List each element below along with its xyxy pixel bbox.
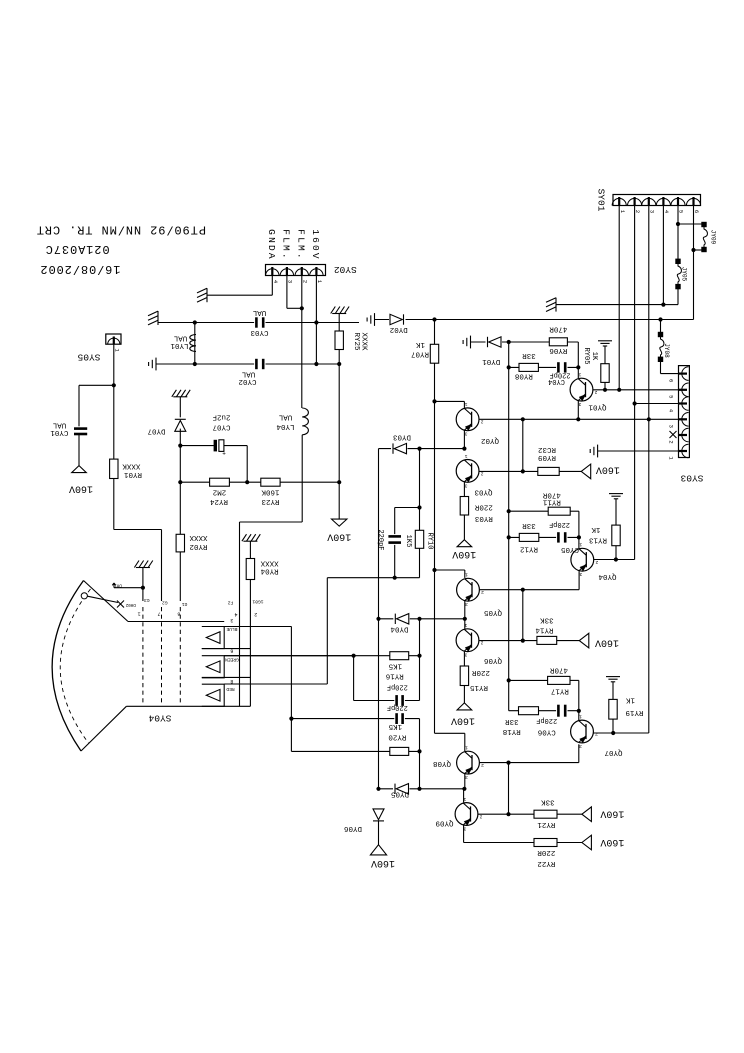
svg-text:JY08: JY08	[663, 343, 670, 358]
svg-text:RY02: RY02	[189, 542, 207, 550]
svg-text:QY04: QY04	[598, 572, 617, 580]
svg-text:RY13: RY13	[589, 535, 608, 543]
svg-text:LY04: LY04	[276, 422, 295, 430]
svg-text:RY17: RY17	[551, 687, 569, 695]
svg-text:RY15: RY15	[470, 683, 489, 691]
svg-text:RY24: RY24	[210, 497, 229, 505]
svg-text:1G01: 1G01	[252, 598, 263, 604]
svg-text:XXXK: XXXK	[122, 461, 141, 469]
svg-text:FLM.: FLM.	[281, 229, 292, 261]
svg-text:3: 3	[464, 431, 467, 437]
svg-text:SY05: SY05	[77, 351, 100, 362]
svg-text:3: 3	[579, 571, 582, 577]
svg-text:6: 6	[668, 379, 675, 382]
svg-text:160V: 160V	[451, 714, 475, 725]
svg-text:QY09: QY09	[435, 818, 453, 826]
svg-text:6: 6	[693, 210, 700, 213]
svg-text:SY04: SY04	[148, 713, 171, 724]
svg-text:2u2F: 2u2F	[212, 413, 230, 421]
svg-text:2: 2	[254, 611, 257, 617]
svg-text:2: 2	[479, 813, 482, 819]
svg-text:220R: 220R	[472, 668, 491, 676]
svg-text:33K: 33K	[540, 615, 554, 623]
svg-text:220pF: 220pF	[536, 716, 557, 724]
svg-text:BLUE: BLUE	[226, 626, 237, 632]
svg-text:16/08/2002: 16/08/2002	[39, 262, 120, 276]
svg-text:220R: 220R	[474, 502, 493, 510]
svg-text:1: 1	[578, 372, 581, 378]
svg-text:3: 3	[465, 774, 468, 780]
svg-text:G3: G3	[144, 597, 150, 603]
svg-text:3: 3	[668, 425, 675, 428]
svg-text:SY02: SY02	[334, 264, 357, 275]
svg-text:1K5: 1K5	[388, 722, 402, 730]
svg-text:5: 5	[678, 210, 685, 213]
svg-text:2: 2	[595, 559, 598, 565]
svg-text:DY07: DY07	[147, 427, 165, 435]
svg-text:1: 1	[138, 610, 141, 616]
svg-text:1K5: 1K5	[404, 535, 412, 548]
svg-text:1: 1	[465, 572, 468, 578]
svg-text:1: 1	[579, 713, 582, 719]
svg-text:DH02: DH02	[125, 602, 136, 606]
svg-text:CY01: CY01	[50, 428, 69, 436]
svg-text:2: 2	[481, 762, 484, 768]
svg-text:220pF: 220pF	[376, 529, 384, 550]
svg-text:CY06: CY06	[537, 728, 556, 736]
svg-text:1: 1	[464, 401, 467, 407]
svg-text:3: 3	[230, 617, 233, 623]
svg-text:RY03: RY03	[474, 514, 493, 522]
svg-text:3: 3	[465, 601, 468, 607]
svg-text:LY01: LY01	[170, 341, 189, 349]
svg-text:RY12: RY12	[520, 544, 538, 552]
svg-text:1K: 1K	[591, 525, 601, 533]
svg-text:UAL: UAL	[278, 412, 292, 420]
svg-text:QY01: QY01	[588, 402, 607, 410]
svg-text:CY05: CY05	[561, 545, 580, 553]
svg-text:2: 2	[634, 210, 641, 213]
svg-text:2: 2	[594, 389, 597, 395]
svg-text:GREEN: GREEN	[225, 657, 239, 663]
svg-text:XXXX: XXXX	[189, 533, 208, 541]
svg-text:160V: 160V	[452, 548, 476, 559]
svg-text:160V: 160V	[327, 531, 351, 542]
svg-text:2: 2	[668, 440, 675, 443]
svg-text:RY20: RY20	[388, 732, 407, 740]
svg-text:QY05: QY05	[484, 608, 503, 616]
svg-text:DH1: DH1	[114, 583, 122, 587]
svg-text:3: 3	[579, 743, 582, 749]
svg-text:3: 3	[463, 825, 466, 831]
svg-text:RY06: RY06	[549, 346, 568, 354]
svg-text:RY19: RY19	[625, 708, 643, 716]
svg-text:33R: 33R	[505, 717, 519, 725]
svg-text:3: 3	[648, 210, 655, 213]
svg-text:G1: G1	[182, 601, 188, 607]
svg-text:160V: 160V	[596, 464, 620, 475]
svg-text:UAL: UAL	[241, 370, 255, 378]
svg-text:160V: 160V	[371, 857, 395, 868]
svg-text:QY02: QY02	[481, 436, 499, 444]
svg-text:021A037C: 021A037C	[45, 242, 110, 256]
svg-text:PT90/92 NN/MN TR. CRT: PT90/92 NN/MN TR. CRT	[36, 223, 206, 237]
svg-text:33R: 33R	[522, 521, 536, 529]
svg-text:2: 2	[301, 280, 308, 283]
svg-text:220pF: 220pF	[387, 703, 408, 711]
svg-text:DY03: DY03	[393, 433, 412, 441]
svg-text:RY18: RY18	[503, 727, 521, 735]
svg-text:2: 2	[595, 731, 598, 737]
svg-text:220R: 220R	[537, 848, 556, 856]
svg-text:CY02: CY02	[238, 377, 256, 385]
svg-text:RY25: RY25	[352, 332, 360, 351]
svg-text:470R: 470R	[550, 665, 569, 673]
svg-text:CY03: CY03	[250, 328, 269, 336]
svg-text:1: 1	[464, 622, 467, 628]
svg-text:160V: 160V	[595, 637, 619, 648]
svg-text:1K: 1K	[590, 352, 598, 361]
svg-text:F2: F2	[228, 599, 234, 605]
svg-text:RY14: RY14	[535, 625, 554, 633]
svg-text:1K5: 1K5	[388, 661, 402, 669]
svg-text:DY05: DY05	[391, 789, 410, 797]
svg-text:QY07: QY07	[604, 748, 622, 756]
svg-text:1: 1	[463, 796, 466, 802]
svg-text:3: 3	[578, 401, 581, 407]
svg-text:2: 2	[480, 640, 483, 646]
svg-text:8: 8	[230, 678, 233, 684]
svg-text:33R: 33R	[522, 351, 536, 359]
svg-text:JY09: JY09	[709, 230, 716, 245]
svg-text:XXXX: XXXX	[260, 558, 279, 566]
svg-text:G2: G2	[162, 600, 168, 606]
svg-text:RY07: RY07	[411, 349, 429, 357]
svg-text:UAL: UAL	[52, 420, 66, 428]
svg-text:6: 6	[177, 610, 180, 616]
svg-text:SY03: SY03	[680, 472, 703, 483]
svg-text:1: 1	[465, 745, 468, 751]
svg-text:2: 2	[480, 470, 483, 476]
svg-text:RY09: RY09	[538, 453, 556, 461]
svg-text:UAL: UAL	[173, 333, 187, 341]
svg-text:3: 3	[464, 652, 467, 658]
svg-text:GNDA: GNDA	[266, 229, 277, 261]
svg-text:DY04: DY04	[390, 624, 409, 632]
svg-text:QY06: QY06	[484, 656, 503, 664]
svg-text:RY21: RY21	[537, 820, 556, 828]
svg-text:RY11: RY11	[542, 497, 561, 505]
svg-text:RY23: RY23	[261, 497, 280, 505]
svg-text:DY02: DY02	[390, 325, 408, 333]
svg-text:RY08: RY08	[515, 371, 533, 379]
svg-text:160V: 160V	[310, 229, 321, 261]
svg-text:160K: 160K	[261, 488, 280, 496]
svg-text:160V: 160V	[600, 808, 624, 819]
svg-text:DY06: DY06	[344, 824, 363, 832]
svg-text:7: 7	[157, 610, 160, 616]
svg-text:UAL: UAL	[252, 308, 266, 316]
svg-text:RY10: RY10	[426, 533, 434, 550]
svg-text:RC32: RC32	[538, 445, 556, 453]
svg-text:2: 2	[480, 419, 483, 425]
svg-text:QY08: QY08	[433, 759, 451, 767]
svg-text:2M2: 2M2	[213, 488, 227, 496]
svg-text:RED: RED	[226, 686, 235, 692]
svg-text:RY04: RY04	[260, 566, 279, 574]
svg-text:+: +	[222, 451, 226, 458]
svg-text:3: 3	[287, 280, 294, 283]
svg-text:1K: 1K	[416, 340, 426, 348]
svg-text:CY04: CY04	[548, 377, 565, 385]
svg-text:470R: 470R	[542, 490, 561, 498]
svg-text:220pF: 220pF	[549, 520, 570, 528]
svg-text:2: 2	[481, 589, 484, 595]
svg-text:RY05: RY05	[582, 348, 590, 365]
svg-text:SY01: SY01	[595, 189, 606, 212]
svg-text:6: 6	[230, 647, 233, 653]
svg-text:5: 5	[668, 395, 675, 398]
svg-text:RY16: RY16	[385, 671, 404, 679]
svg-text:XXXK: XXXK	[359, 332, 367, 351]
svg-text:RY01: RY01	[124, 470, 143, 478]
svg-text:DY01: DY01	[482, 357, 501, 365]
svg-text:JY05: JY05	[680, 267, 687, 282]
svg-text:220pF: 220pF	[387, 683, 408, 691]
svg-text:160V: 160V	[600, 836, 624, 847]
svg-text:470R: 470R	[549, 325, 568, 333]
svg-text:FLM.: FLM.	[296, 229, 307, 261]
svg-text:33K: 33K	[541, 797, 555, 805]
svg-text:160V: 160V	[69, 483, 93, 494]
svg-text:4: 4	[234, 611, 237, 617]
svg-text:CY07: CY07	[212, 423, 230, 431]
svg-text:1: 1	[464, 453, 467, 459]
svg-text:1K: 1K	[626, 695, 636, 703]
svg-text:QY03: QY03	[474, 487, 493, 495]
svg-text:RY22: RY22	[537, 859, 555, 867]
svg-text:3: 3	[464, 482, 467, 488]
